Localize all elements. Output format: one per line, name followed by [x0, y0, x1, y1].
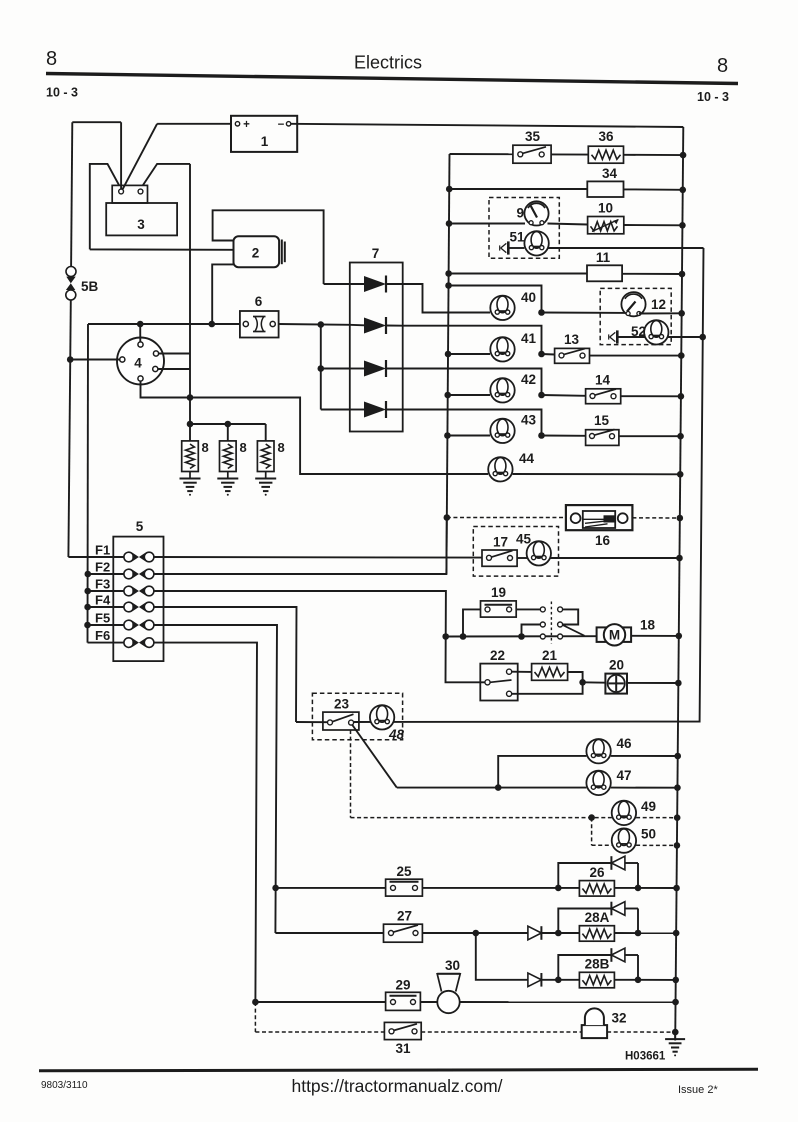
ground under resistor 8 third — [255, 472, 276, 496]
node 18 bus — [675, 633, 682, 640]
wire solenoid 2 top loop to diode 1 input — [213, 210, 324, 284]
wire lamp43 to switch 15 — [542, 435, 586, 437]
node 25 feed — [272, 885, 279, 892]
shutoff solenoid 6 — [240, 294, 279, 338]
svg-text:10: 10 — [598, 201, 613, 216]
wire node to comp6 row — [87, 324, 90, 643]
switch 29 — [386, 978, 421, 1011]
node diode3 feed — [318, 365, 325, 372]
svg-text:9: 9 — [516, 206, 524, 221]
wire battery plus to starter terminal — [122, 124, 231, 190]
wire into switch 23 — [296, 721, 328, 723]
resistor 21 — [532, 648, 568, 681]
svg-text:51: 51 — [509, 230, 525, 245]
wire comp6 to diode block — [279, 323, 350, 326]
svg-text:Issue 2*: Issue 2* — [678, 1084, 718, 1096]
wire to switch 19 — [463, 609, 481, 636]
node 50 bus — [674, 842, 681, 849]
switch 13 — [555, 332, 590, 363]
node 47 bus — [674, 784, 681, 791]
wire radio row dashed right — [632, 517, 679, 519]
svg-text:H03661: H03661 — [625, 1051, 666, 1063]
header page number right — [717, 55, 728, 77]
svg-text:2: 2 — [252, 246, 260, 261]
svg-text:7: 7 — [372, 246, 380, 261]
chassis symbol lamp 52 — [609, 330, 645, 343]
wire comp6 row — [88, 323, 240, 325]
wire to switch 27 — [275, 932, 383, 934]
dashed wire lamp50 to bus — [636, 844, 677, 846]
node 36 bus — [680, 152, 687, 159]
svg-text:−: − — [278, 119, 285, 131]
switch 27 — [384, 909, 423, 943]
svg-text:28B: 28B — [585, 957, 610, 972]
node rail 2 — [225, 421, 232, 428]
diode 28B inline — [528, 973, 542, 987]
radio 16 — [566, 505, 633, 548]
diode D1 — [324, 276, 403, 293]
wire switch4 left terminal — [70, 359, 120, 361]
dashed wire to lamp 50 — [592, 818, 612, 846]
resistor 8 first — [182, 440, 209, 472]
wire fuse F5 row — [88, 624, 125, 626]
node heater — [579, 679, 586, 686]
starter motor 3 body — [106, 203, 177, 235]
wire lamp40 upper loop — [449, 286, 542, 313]
footer issue — [678, 1084, 718, 1096]
fuse F1 — [124, 552, 154, 562]
diode loop 28B — [558, 948, 638, 980]
svg-text:32: 32 — [612, 1011, 627, 1026]
warning lamp 44 — [488, 451, 534, 481]
wire switch19 to wiper contacts — [516, 608, 540, 610]
svg-text:F2: F2 — [95, 560, 110, 575]
wire lamp52 to harness right — [668, 336, 703, 338]
dashed box 17 45 — [473, 527, 558, 577]
svg-text:27: 27 — [397, 909, 412, 924]
svg-text:11: 11 — [596, 250, 611, 265]
svg-text:3: 3 — [137, 217, 145, 232]
warning lamp 46 — [586, 736, 632, 763]
footer document number — [41, 1080, 88, 1091]
warning lamp 42 — [490, 372, 536, 402]
wire switch4 right terminal — [159, 353, 190, 355]
diode D4 — [350, 401, 403, 418]
node F5 — [84, 622, 91, 629]
svg-text:F3: F3 — [95, 577, 110, 592]
wire fuse F3 row — [88, 590, 124, 592]
node 32 bus — [672, 1029, 679, 1036]
fuel gauge 12 — [621, 292, 666, 316]
node resistor feed — [187, 394, 194, 401]
wire F3 to wiper and heater — [154, 591, 485, 682]
node 26 right — [635, 885, 642, 892]
wire F2 to left bus — [154, 518, 447, 575]
resistor 26 — [579, 865, 614, 896]
node 47 feed — [495, 784, 502, 791]
node radio left — [444, 514, 451, 521]
node 43 right — [538, 432, 545, 439]
resistor 10 sender — [588, 201, 624, 234]
svg-text:4: 4 — [134, 356, 142, 371]
node 12 bus — [678, 310, 685, 317]
label F1 — [95, 543, 110, 558]
switch 14 — [586, 373, 621, 404]
node 28A bus — [673, 930, 680, 937]
svg-text:29: 29 — [395, 978, 410, 993]
switch 23 — [323, 697, 359, 731]
node lamp40 right — [538, 309, 545, 316]
header section left 10 - 3 — [46, 86, 78, 100]
svg-text:5: 5 — [136, 519, 144, 534]
svg-text:10 - 3: 10 - 3 — [697, 90, 729, 104]
wire row 9-10 — [449, 224, 682, 226]
warning lamp 45 — [516, 532, 551, 566]
node 49 bus — [674, 814, 681, 821]
box 11 — [587, 250, 622, 281]
fuse F2 — [124, 569, 154, 579]
wire row 47 — [397, 787, 587, 789]
wire D1 to lamp 40 — [403, 284, 490, 313]
svg-text:42: 42 — [521, 372, 536, 387]
node 44 bus — [677, 471, 684, 478]
label F3 — [95, 577, 110, 592]
wire left vertical to fuse F1 — [68, 300, 70, 557]
svg-text:26: 26 — [589, 865, 605, 880]
solenoid 2 — [234, 236, 285, 267]
node 34 bus — [679, 187, 686, 194]
svg-text:10 - 3: 10 - 3 — [46, 86, 78, 100]
wire row 35-36 — [450, 154, 684, 155]
node 28A left — [555, 930, 562, 937]
wire lamp46 to bus — [611, 755, 678, 757]
resistor 8 second — [220, 440, 247, 472]
warning lamp 52 — [631, 320, 669, 344]
wire F1 to switch 17 — [154, 556, 482, 559]
wire resistor28B to bus — [614, 979, 675, 981]
box 34 — [587, 166, 623, 197]
svg-text:14: 14 — [595, 373, 611, 388]
wire lamp40 to gauge 12 — [542, 312, 629, 314]
wire fuse F2 row — [88, 573, 124, 575]
fuse F4 — [124, 602, 154, 612]
node 11 left — [445, 270, 452, 277]
header page number left — [46, 48, 57, 70]
resistor 8 third — [257, 440, 284, 472]
svg-text:13: 13 — [564, 332, 580, 347]
wire battery minus to right bus — [291, 124, 683, 127]
wire lamp41 to switch 13 — [542, 353, 555, 356]
diode loop 26 — [558, 856, 638, 888]
svg-text:1: 1 — [261, 134, 269, 149]
horn 30 — [437, 958, 460, 1013]
node 26 left — [555, 885, 562, 892]
header title Electrics — [354, 53, 422, 73]
wire resistor26 to bus — [614, 887, 676, 889]
wire radio row dashed left — [447, 517, 566, 519]
ignition switch 4 — [117, 338, 164, 385]
svg-text:https://tractormanualz.com/: https://tractormanualz.com/ — [291, 1076, 502, 1096]
wire 22 top to resistor 21 — [512, 671, 532, 673]
harness wire to warning lamps — [354, 248, 704, 722]
node 43 left — [444, 432, 451, 439]
wire fuse F6 row — [88, 642, 125, 644]
switch 19 — [481, 585, 517, 617]
svg-text:28A: 28A — [585, 910, 610, 925]
svg-text:8: 8 — [717, 55, 728, 77]
svg-text:46: 46 — [617, 736, 633, 751]
svg-text:22: 22 — [490, 648, 505, 663]
svg-text:45: 45 — [516, 532, 532, 547]
node 15 bus — [677, 433, 684, 440]
wire switch15 to bus — [619, 435, 681, 437]
switch 31 — [384, 1022, 421, 1056]
dashed wire lock to bus — [607, 1031, 675, 1033]
node lamp40 loop left — [445, 282, 452, 289]
wire lamp47 to bus — [611, 787, 678, 789]
node 30 bus — [672, 999, 679, 1006]
dashed wire lamp49 to bus — [636, 817, 677, 819]
starter motor 3 enclosure wire — [90, 164, 190, 398]
node F4 — [84, 604, 91, 611]
svg-text:17: 17 — [493, 535, 508, 550]
svg-text:30: 30 — [445, 958, 460, 973]
wire 22 bottom to node — [512, 682, 583, 694]
wire lamp45 to bus — [551, 557, 680, 559]
warning lamp 49 — [612, 799, 656, 825]
instrument cluster dashed box 12 52 — [600, 288, 671, 344]
svg-text:43: 43 — [521, 413, 537, 428]
warning lamp 50 — [612, 827, 656, 853]
ground main — [665, 1032, 685, 1056]
node 14 bus — [678, 393, 685, 400]
switch 25 — [386, 864, 423, 896]
resistor 28A — [579, 910, 614, 941]
label F4 — [95, 593, 111, 608]
warning lamp 51 — [509, 230, 548, 256]
node 42 right — [538, 392, 545, 399]
diode loop 28A — [558, 902, 638, 933]
svg-text:Electrics: Electrics — [354, 53, 422, 73]
node wiper low — [518, 633, 525, 640]
heater switch 22 — [480, 648, 517, 701]
node rail 1 — [187, 421, 194, 428]
blower 20 — [605, 658, 627, 694]
svg-text:8: 8 — [46, 48, 57, 70]
wire resistor rail — [190, 398, 266, 441]
node 29 feed — [252, 999, 259, 1006]
wire switch4 lower-right terminal — [158, 368, 190, 370]
svg-text:31: 31 — [395, 1041, 411, 1056]
dashed wire switch31 to lock 32 — [421, 1031, 582, 1033]
dashed box 23 48 — [312, 693, 402, 740]
dashed wire row 49 — [351, 817, 612, 819]
node 10 bus — [679, 222, 686, 229]
wiper motor 18 — [597, 618, 656, 646]
svg-text:F6: F6 — [95, 628, 110, 643]
node 28B bus — [672, 977, 679, 984]
wire switch14 to bus — [621, 395, 681, 397]
node 28A right — [635, 930, 642, 937]
switch 35 — [513, 129, 551, 163]
wire branch to 28B — [476, 933, 528, 980]
wire lamp44 to bus — [513, 473, 681, 475]
wiper switch contacts — [522, 602, 585, 644]
drawing number H03661 — [625, 1051, 666, 1063]
diode block 7 box — [350, 246, 403, 432]
dashed wire to switch 31 — [255, 1031, 384, 1033]
warning lamp 48 — [370, 705, 405, 742]
resistor 28B — [579, 957, 614, 988]
svg-text:40: 40 — [521, 290, 536, 305]
wire row 41 — [448, 353, 490, 355]
svg-text:47: 47 — [617, 768, 632, 783]
svg-text:20: 20 — [609, 658, 624, 673]
switch 15 — [586, 413, 619, 445]
svg-text:F4: F4 — [95, 593, 111, 608]
warning lamp 40 — [490, 290, 536, 320]
node comp4 top — [137, 321, 144, 328]
wire to switch 29 — [255, 1001, 385, 1003]
wire lamp42 to switch 14 — [542, 394, 586, 397]
wire top-left horizontal — [72, 122, 121, 189]
node 20 bus — [675, 680, 682, 687]
node 41 right — [538, 351, 545, 358]
wire switch27 to diode — [422, 932, 528, 934]
wire to switch 25 — [276, 887, 386, 889]
fuse 5B — [66, 267, 99, 301]
svg-text:34: 34 — [602, 166, 618, 181]
svg-text:8: 8 — [278, 440, 285, 455]
wire lamp46 feed — [498, 756, 586, 788]
wire D3 to lamp42 node — [403, 369, 542, 396]
lock 32 — [582, 1008, 627, 1038]
right bus vertical — [675, 127, 683, 1041]
header section right 10 - 3 — [697, 90, 729, 104]
fuse F3 — [124, 586, 154, 596]
svg-text:25: 25 — [396, 864, 412, 879]
wire row 34 — [449, 188, 683, 191]
wire F4 to switch 23 — [154, 607, 297, 722]
switch 17 — [482, 535, 517, 567]
header rule — [46, 74, 738, 84]
wire D2 to lamp41 node — [403, 326, 542, 354]
dashed wire down from 29 feed — [254, 1002, 256, 1032]
node 49 branch — [588, 814, 595, 821]
svg-text:5B: 5B — [81, 279, 99, 294]
wire diode to 28B — [541, 979, 579, 981]
node 19 feed — [460, 633, 467, 640]
ground under resistor 8 second — [217, 472, 238, 496]
svg-text:36: 36 — [598, 129, 614, 144]
node diode2-4 feed — [318, 321, 325, 328]
svg-text:9803/3110: 9803/3110 — [41, 1080, 88, 1091]
svg-text:48: 48 — [388, 727, 405, 742]
node radio bus — [677, 515, 684, 522]
node 11 bus — [679, 271, 686, 278]
diode 28A inline — [528, 926, 542, 940]
node 45 bus — [676, 555, 683, 562]
wire diode to 28A — [541, 932, 579, 934]
svg-text:18: 18 — [640, 618, 656, 633]
wire motor to bus — [631, 635, 679, 637]
svg-text:21: 21 — [542, 648, 558, 663]
diode D2 — [350, 317, 403, 334]
wire motor row — [446, 635, 597, 637]
wire switch4 top terminal — [139, 324, 141, 342]
wire lamp51 to harness right — [549, 247, 704, 249]
wire node to blower 20 — [583, 681, 606, 683]
instrument cluster dashed box 9 51 — [489, 198, 559, 259]
wire horn to bus — [460, 1001, 676, 1003]
node F3 — [84, 588, 91, 595]
svg-text:23: 23 — [334, 697, 350, 712]
wire fuse F4 row — [88, 606, 124, 608]
starter motor 3 terminal box — [112, 185, 147, 203]
footer url — [291, 1076, 502, 1096]
warning lamp 43 — [490, 413, 536, 443]
wire 21 to node — [568, 672, 583, 682]
warning lamp 47 — [586, 768, 631, 795]
wire F5 down — [154, 625, 277, 933]
wire switch25 to resistor 26 — [422, 887, 579, 889]
battery 1 — [231, 116, 297, 152]
svg-text:49: 49 — [641, 799, 656, 814]
wire gauge12 to bus — [639, 312, 682, 314]
svg-text:16: 16 — [595, 533, 611, 548]
node comp4 left — [67, 356, 74, 363]
svg-text:6: 6 — [255, 294, 263, 309]
node 27 branch — [473, 930, 480, 937]
ground under resistor 8 first — [180, 472, 201, 496]
wire switch23 diagonal to row47 — [352, 725, 397, 788]
node F2 — [85, 571, 92, 578]
wire D4 to lamp43 node — [403, 410, 542, 436]
svg-text:15: 15 — [594, 413, 610, 428]
wire switch29 to horn — [420, 1001, 437, 1003]
node 28B right — [635, 977, 642, 984]
wire row 42 — [448, 394, 490, 396]
footer rule — [39, 1069, 758, 1071]
diode D3 — [350, 360, 403, 377]
wire left vertical from top — [71, 122, 72, 266]
node 28B left — [555, 977, 562, 984]
node 26 bus — [673, 885, 680, 892]
svg-text:35: 35 — [525, 129, 541, 144]
wire F6 down — [154, 643, 257, 1002]
node 46 bus — [674, 753, 681, 760]
wire enclosure bottom to solenoid 2 — [90, 248, 234, 250]
warning lamp 41 — [490, 331, 536, 361]
node 34 left — [446, 186, 453, 193]
label F2 — [95, 560, 110, 575]
svg-text:8: 8 — [240, 440, 247, 455]
label F5 — [95, 611, 110, 626]
temperature gauge 9 — [516, 201, 548, 225]
wire resistor28A to bus — [614, 932, 676, 934]
wire switch4 bottom to resistor rail and lamp44 — [141, 381, 489, 474]
dashed wire switch23 down — [350, 730, 352, 818]
wire row 43 — [447, 435, 490, 437]
svg-text:44: 44 — [519, 451, 535, 466]
label F6 — [95, 628, 110, 643]
fusebox 5 box — [113, 519, 163, 661]
node 42 left — [444, 392, 451, 399]
fuse F5 — [124, 620, 154, 630]
node solenoid2 bottom — [209, 321, 216, 328]
chassis symbol lamp 51 — [500, 241, 525, 254]
node 41 left — [445, 351, 452, 358]
